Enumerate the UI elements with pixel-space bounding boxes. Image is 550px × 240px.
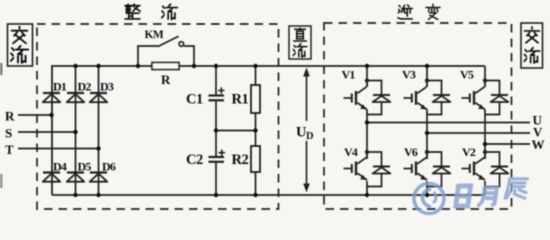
wire col1 emitter segment xyxy=(366,66,368,195)
svg-text:S: S xyxy=(5,126,12,141)
node leg3 top xyxy=(96,64,100,68)
wire output U xyxy=(367,122,530,124)
node T tap xyxy=(96,146,100,150)
svg-text:V3: V3 xyxy=(402,68,416,82)
svg-text:T: T xyxy=(5,142,14,157)
wire phase S input xyxy=(18,131,76,133)
svg-text:V5: V5 xyxy=(460,68,474,82)
transistor V6 (IGBT + diode) xyxy=(404,150,451,187)
svg-text:D6: D6 xyxy=(102,160,116,174)
svg-text:R: R xyxy=(5,109,15,124)
svg-text:D3: D3 xyxy=(100,80,114,94)
voltage arrow UD xyxy=(303,68,310,193)
wire bottom DC bus xyxy=(52,194,485,196)
node KM right xyxy=(192,64,196,68)
node res leg bottom xyxy=(253,193,257,197)
transistor V5 (IGBT + diode) xyxy=(462,78,509,114)
node col2 bottom xyxy=(425,193,429,197)
svg-text:V6: V6 xyxy=(404,145,418,159)
svg-text:C2: C2 xyxy=(186,152,203,168)
node cap leg bottom xyxy=(214,193,218,197)
AC box left xyxy=(8,24,33,66)
AC box right xyxy=(521,23,543,68)
capacitor C1 xyxy=(209,87,225,100)
svg-text:D1: D1 xyxy=(53,80,67,94)
diode D3 xyxy=(90,93,107,102)
node leg3 bottom xyxy=(96,193,100,197)
edge artifact marks xyxy=(0,63,3,75)
capacitor C2 xyxy=(209,150,226,162)
dashed box inverter section xyxy=(324,23,512,209)
resistor R2 xyxy=(251,146,260,172)
svg-text:V2: V2 xyxy=(462,145,476,159)
svg-text:D: D xyxy=(306,131,314,142)
wire phase R input xyxy=(18,114,52,116)
diode D4 xyxy=(43,173,60,182)
wire col3 xyxy=(484,66,486,195)
node R tap xyxy=(49,113,53,117)
diode D1 xyxy=(43,93,60,102)
wire output V xyxy=(427,132,530,134)
wire top DC bus xyxy=(52,66,485,195)
resistor R (charging) xyxy=(152,63,179,70)
svg-text:R2: R2 xyxy=(232,152,249,168)
wire capacitor leg xyxy=(215,66,217,195)
svg-text:D4: D4 xyxy=(53,160,67,174)
label 逆变 (inverter) xyxy=(398,4,440,19)
svg-text:KM: KM xyxy=(145,29,164,41)
transistor V2 (IGBT + diode) xyxy=(462,150,509,187)
node W tap xyxy=(483,142,487,146)
node res leg top xyxy=(253,64,257,68)
node leg2 bottom xyxy=(73,193,77,197)
wire bridge leg 2 xyxy=(75,66,77,195)
watermark logo circle xyxy=(414,184,444,214)
svg-text:V1: V1 xyxy=(342,68,356,82)
label 整流 (rectifier) xyxy=(125,4,177,19)
node U tap xyxy=(365,120,369,124)
node KM left xyxy=(136,64,140,68)
wire resistor leg xyxy=(255,66,257,195)
svg-text:D5: D5 xyxy=(78,160,92,174)
svg-text:C1: C1 xyxy=(186,92,203,108)
wire bridge leg 3 xyxy=(98,66,100,195)
node col2 top xyxy=(425,64,429,68)
svg-text:V4: V4 xyxy=(344,145,358,159)
watermark characters 日月辰 xyxy=(455,179,528,206)
node cap leg top xyxy=(214,64,218,68)
wire phase T input xyxy=(18,148,99,150)
svg-text:W: W xyxy=(532,137,545,152)
node mid cap xyxy=(214,128,218,132)
transistor V4 (IGBT + diode) xyxy=(344,150,391,187)
transistor V3 (IGBT + diode) xyxy=(404,78,451,114)
node S tap xyxy=(73,130,77,134)
DC box 直流 xyxy=(289,26,311,59)
svg-text:D2: D2 xyxy=(78,80,92,94)
node col1 top xyxy=(365,64,369,68)
node V tap xyxy=(425,131,429,135)
resistor R1 xyxy=(251,85,260,113)
contactor KM bypass branch xyxy=(138,36,194,66)
node col1 bottom xyxy=(365,193,369,197)
svg-text:R1: R1 xyxy=(232,92,249,108)
diode D2 xyxy=(67,93,84,102)
diode D5 xyxy=(67,173,84,182)
wire output W xyxy=(485,143,530,145)
dashed box rectifier section xyxy=(37,24,279,209)
diode D6 xyxy=(90,173,107,182)
node leg2 top xyxy=(73,64,77,68)
wire midpoint link xyxy=(216,130,256,132)
node mid res xyxy=(253,128,257,132)
wire col2 xyxy=(426,66,428,195)
transistor V1 (IGBT + diode) xyxy=(344,78,391,114)
svg-text:R: R xyxy=(161,72,171,87)
